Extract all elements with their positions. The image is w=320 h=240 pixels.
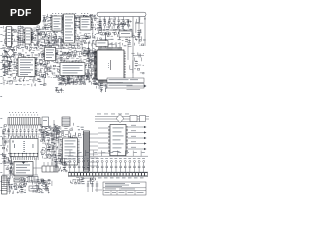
wire cluster QFP feed bbox=[86, 47, 96, 80]
wire right bus vertical bbox=[128, 42, 133, 78]
wire cluster x38-60 y124-140 bbox=[39, 124, 60, 140]
text above bundle bbox=[97, 113, 129, 116]
module U16 with pins bbox=[10, 162, 34, 177]
connector CN4 left edge bbox=[2, 176, 11, 194]
ladder parts x18-23 bbox=[18, 26, 23, 46]
left edge marks bottom bbox=[0, 118, 2, 191]
capacitor array row bbox=[8, 129, 38, 137]
vertical wires x50-60 bbox=[52, 126, 59, 168]
parts x52-66 y156-170 bbox=[54, 157, 67, 172]
dark box x14-20 bbox=[14, 178, 20, 182]
parts right of U13 bbox=[40, 126, 54, 159]
wire cluster below U4 arrows bbox=[58, 78, 86, 86]
left bottom texture bbox=[8, 183, 26, 194]
wires above capacitor bank bbox=[68, 151, 148, 157]
wire top power bus loop bbox=[97, 12, 146, 20]
wire bundle right y116 bbox=[95, 117, 149, 122]
wire cluster right of QFP bbox=[129, 52, 144, 74]
connector 4-cell bbox=[42, 162, 58, 172]
wire cluster far right-top bbox=[133, 17, 146, 46]
box right of comb bbox=[42, 117, 49, 127]
wire cluster around bridge bbox=[2, 49, 16, 58]
label box NOTE1 bbox=[107, 78, 144, 83]
IC U9 bbox=[79, 17, 93, 30]
IC U3 bbox=[43, 48, 58, 61]
U15 output arrow wires bbox=[128, 125, 147, 150]
small parts mid-band bbox=[55, 87, 64, 93]
U15 left wires bbox=[98, 128, 108, 153]
arrow wires right of QFP bbox=[127, 85, 147, 90]
wire junction dots row bbox=[11, 137, 35, 138]
IC U10 QFP main processor bbox=[92, 47, 126, 85]
IC U7 bbox=[50, 16, 64, 31]
wire cluster x36-50 y26-46 bbox=[36, 26, 50, 47]
wire cluster x50-62 y126-140 bbox=[50, 125, 62, 140]
wires module to boxes bbox=[2, 158, 42, 175]
parts below rail bbox=[70, 176, 96, 184]
wire into title area bbox=[95, 189, 102, 191]
transistor Q5 bbox=[41, 150, 45, 154]
label box NOTE2 bbox=[107, 84, 144, 89]
transistor Q6 bbox=[47, 154, 51, 158]
IC U2 bbox=[16, 58, 37, 77]
pin numbers above ICs bbox=[52, 12, 88, 15]
wire cluster left low bbox=[3, 73, 46, 86]
box x28-38 y186 bbox=[29, 186, 38, 191]
connector CN2 strip bbox=[84, 131, 99, 171]
wire cluster centre-low bbox=[56, 62, 92, 84]
IC U15 bbox=[108, 125, 128, 156]
parts x32-48 y178-192 bbox=[33, 179, 50, 193]
wire cluster above U14 bbox=[58, 123, 84, 140]
wire cluster x44-60 y35-47 bbox=[44, 34, 60, 47]
wire right drops bbox=[133, 17, 145, 47]
connector CN1 comb bbox=[8, 112, 40, 128]
transistor Q3 bbox=[71, 45, 75, 49]
tiny text row y177 bbox=[98, 177, 144, 180]
box J3 pair bbox=[130, 116, 146, 122]
wire cluster left mid bbox=[2, 47, 48, 77]
junction dot row y153.5 bbox=[8, 153, 38, 158]
IC U14 bbox=[61, 138, 80, 165]
diode bridge D1 bbox=[7, 46, 14, 60]
wire cluster x52-68 bottom bbox=[52, 141, 62, 172]
transistor Q2 bbox=[44, 68, 48, 72]
wire cluster centre-top bbox=[43, 14, 96, 34]
IC U8 bbox=[62, 14, 77, 43]
wire cluster right-top bbox=[96, 17, 132, 48]
wire cluster left edge bottom bbox=[2, 125, 9, 170]
QFP top wires bbox=[100, 42, 120, 48]
QFP left feed wires bbox=[88, 53, 95, 74]
connector box hatched x62-70 bbox=[62, 117, 70, 126]
parts under QFP left bbox=[96, 83, 107, 92]
vertical parts near title block bbox=[87, 181, 98, 192]
wire row y30 bbox=[97, 29, 133, 30]
wire cluster x44-60 y62-78 bbox=[45, 62, 60, 79]
long wires bottom-left bbox=[2, 120, 60, 186]
page fold mark bbox=[0, 95, 2, 98]
wire cluster below module bbox=[30, 179, 52, 190]
wire cluster top-left under badge bbox=[2, 26, 42, 48]
IC U1 bbox=[5, 27, 13, 47]
IC U1b bbox=[24, 28, 33, 44]
IC U4 wide DIP bbox=[60, 61, 85, 78]
wire cluster module area bbox=[7, 156, 28, 186]
U4 bottom pin wires bbox=[62, 78, 83, 85]
IC U13 bottom-left bbox=[10, 136, 38, 161]
terminal strip rail bbox=[68, 172, 148, 176]
PDF badge bbox=[0, 0, 41, 25]
diode D5 diamond bbox=[116, 115, 124, 123]
capacitor bank above rail bbox=[68, 158, 145, 172]
box x28-38 y176 bbox=[28, 177, 38, 183]
wire cluster x1-8 y56-74 bbox=[1, 55, 8, 74]
wire cluster centre bbox=[42, 33, 96, 63]
capacitor row C-top bbox=[99, 20, 130, 29]
box U12 bbox=[119, 31, 132, 37]
box U11 bbox=[96, 41, 108, 47]
left edge text marks bbox=[0, 20, 2, 84]
title block bbox=[103, 182, 146, 195]
transistor Q1 bbox=[39, 60, 43, 64]
